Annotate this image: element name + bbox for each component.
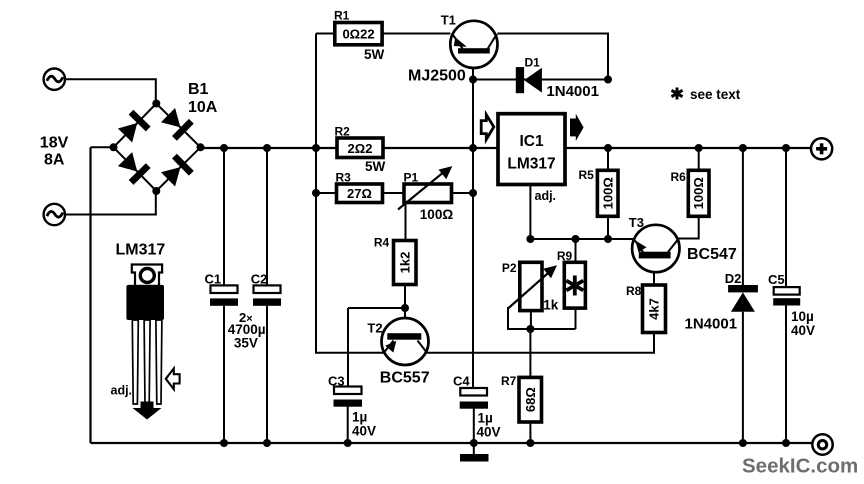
LM317 package body	[126, 285, 164, 320]
svg-text:40V: 40V	[477, 425, 501, 440]
transistor T2 BC557	[382, 318, 429, 365]
svg-text:100Ω: 100Ω	[600, 177, 615, 209]
wire R3 to P1	[383, 192, 405, 194]
terminal + output	[811, 138, 832, 159]
wire P1 wiper down to R4	[405, 204, 407, 241]
wire T1 base down through junction to main rail	[472, 53, 474, 148]
svg-text:10A: 10A	[188, 99, 218, 116]
resistor R8	[643, 285, 666, 333]
svg-text:1k2: 1k2	[397, 252, 412, 274]
wire R5 top lead	[607, 148, 609, 170]
capacitor C2	[253, 148, 281, 443]
svg-text:5W: 5W	[364, 47, 385, 62]
svg-text:BC557: BC557	[380, 370, 430, 387]
wire R6 top lead	[698, 148, 700, 170]
resistor R6	[688, 170, 709, 216]
wire C5 bottom lead	[785, 306, 787, 444]
wire top AC source to bridge top vertex	[65, 79, 156, 103]
svg-text:1µ: 1µ	[352, 410, 367, 425]
svg-text:D1: D1	[525, 56, 541, 70]
resistor R1	[335, 23, 382, 45]
terminal 0 output	[812, 434, 832, 454]
svg-text:R8: R8	[626, 284, 642, 298]
LM317 package tab hole	[140, 269, 154, 283]
ground symbol below C4	[460, 454, 489, 462]
label see text with asterisk	[672, 87, 741, 102]
svg-text:R5: R5	[579, 168, 595, 182]
wire T2 base node horizontal to C3	[348, 307, 405, 309]
svg-text:adj.: adj.	[535, 189, 557, 203]
wire R5 bottom lead	[607, 216, 609, 239]
diode D2	[728, 285, 758, 312]
wire D2 bottom lead	[742, 312, 744, 443]
svg-text:C1: C1	[205, 272, 222, 287]
wire R9 top lead	[575, 239, 577, 262]
LM317 package tab	[132, 265, 162, 287]
svg-text:BC547: BC547	[687, 246, 737, 263]
wire vertical x=473 from rail to C4	[472, 148, 474, 388]
wire P2 wiper tap L	[508, 307, 576, 329]
wire T2 base lead	[404, 308, 406, 334]
wire P2 bottom lead	[530, 311, 532, 329]
capacitor C5	[773, 287, 800, 305]
resistor R7	[519, 377, 542, 422]
AC source bottom	[44, 204, 65, 225]
svg-text:1k: 1k	[543, 298, 559, 313]
svg-text:C4: C4	[453, 374, 470, 389]
svg-text:C3: C3	[328, 374, 345, 389]
svg-text:LM317: LM317	[116, 242, 166, 259]
transistor T3 BC547	[632, 225, 679, 272]
svg-text:4k7: 4k7	[647, 298, 662, 320]
svg-text:R3: R3	[336, 171, 352, 185]
capacitor C1	[210, 148, 238, 443]
wire C3 bottom lead	[347, 407, 349, 444]
node adj rail junctions	[526, 235, 612, 243]
bridge diode arm left-bottom	[116, 151, 150, 185]
svg-text:R1: R1	[334, 9, 350, 23]
diode D1	[516, 67, 542, 93]
svg-text:2Ω2: 2Ω2	[348, 141, 373, 156]
svg-text:27Ω: 27Ω	[347, 186, 372, 201]
svg-text:SeekIC.com: SeekIC.com	[742, 455, 858, 478]
svg-text:R6: R6	[671, 170, 687, 184]
LM317 package hollow left arrow	[166, 368, 180, 389]
svg-text:R7: R7	[501, 374, 517, 388]
bridge diode arm top-right	[160, 107, 194, 141]
resistor R5	[597, 170, 618, 216]
wire IC1 adj pin	[529, 185, 531, 240]
wire R1 right lead to T1	[382, 33, 450, 35]
svg-text:1N4001: 1N4001	[685, 315, 738, 332]
capacitor C3	[334, 387, 363, 407]
wire bottom AC source to bridge bottom vertex	[65, 191, 156, 215]
svg-text:adj.: adj.	[111, 384, 133, 398]
op-amp regulator IC1 LM317 box	[498, 114, 565, 185]
IC1 output solid arrow	[570, 114, 584, 141]
wire D1 horizontal net	[473, 79, 608, 81]
svg-text:IC1: IC1	[519, 133, 544, 150]
wire P1 right lead	[452, 192, 474, 194]
svg-text:1µ: 1µ	[478, 411, 493, 426]
wire C4 bottom lead and ground stub	[473, 409, 475, 455]
wire T3 base to R8	[653, 258, 655, 285]
wire T2 collector to R8 bottom	[427, 333, 654, 353]
wire C5 top lead	[785, 148, 787, 287]
resistor R3	[337, 184, 383, 203]
svg-text:LM317: LM317	[507, 156, 555, 173]
svg-text:B1: B1	[188, 81, 209, 98]
wire left branch rail x=316 down to T2 emitter	[316, 34, 384, 353]
LM317 package down arrow	[133, 402, 162, 420]
svg-text:R9: R9	[557, 249, 573, 263]
wire R3 left lead	[316, 192, 337, 194]
node R3/P1 row junctions	[312, 189, 477, 197]
svg-text:T2: T2	[367, 321, 382, 336]
svg-text:8A: 8A	[44, 152, 65, 169]
svg-text:see text: see text	[690, 87, 741, 102]
AC source top	[44, 69, 65, 90]
wire R9 bottom lead	[575, 308, 577, 329]
node junction dots on main rail	[220, 144, 790, 152]
node junction dots on bottom rail	[220, 439, 790, 447]
wire bridge left vertex to left rail	[91, 146, 114, 148]
IC1 input hollow arrow	[481, 115, 494, 140]
svg-text:R4: R4	[374, 236, 390, 250]
wire R4 bottom lead	[404, 285, 406, 309]
svg-text:100Ω: 100Ω	[691, 177, 706, 209]
svg-text:18V: 18V	[40, 135, 69, 152]
svg-text:100Ω: 100Ω	[420, 207, 454, 222]
potentiometer P1	[398, 166, 452, 209]
resistor R4	[394, 241, 417, 285]
svg-text:T3: T3	[629, 215, 644, 230]
wire R7 bottom lead	[529, 422, 531, 443]
wire C3 top lead	[347, 308, 349, 387]
resistor R9 with asterisk	[564, 262, 585, 308]
svg-text:1N4001: 1N4001	[546, 83, 599, 100]
wire bottom 0V rail	[91, 442, 813, 444]
svg-text:35V: 35V	[234, 336, 258, 351]
svg-text:MJ2500: MJ2500	[408, 67, 466, 84]
svg-text:P2: P2	[502, 261, 517, 275]
node T1 base / D1 junction	[469, 76, 612, 84]
svg-text:68Ω: 68Ω	[523, 387, 538, 412]
svg-text:T1: T1	[441, 13, 456, 28]
svg-text:D2: D2	[725, 271, 742, 286]
wire adj rail to T3 emitter	[530, 238, 633, 240]
svg-text:40V: 40V	[352, 424, 376, 439]
wire R7 vertical from P2 node	[529, 329, 531, 377]
svg-text:0Ω22: 0Ω22	[342, 26, 374, 41]
LM317 package legs	[132, 320, 162, 404]
svg-text:40V: 40V	[791, 323, 815, 338]
wire T1 collector to vertical x=608	[497, 34, 608, 80]
transistor T1 MJ2500	[450, 21, 497, 68]
wire left rail (negative side vertical)	[89, 147, 91, 443]
wire R1 left lead	[316, 33, 335, 35]
node bridge vertex dots	[110, 100, 205, 196]
bridge rectifier B1 diamond wires	[114, 104, 201, 192]
wire main positive rail	[201, 147, 812, 149]
svg-text:R2: R2	[335, 125, 351, 139]
wire D2 top lead	[742, 148, 744, 285]
bridge diode arm left-top	[116, 110, 150, 144]
svg-text:C2: C2	[251, 272, 268, 287]
wire R6 bottom lead to T3 collector	[678, 216, 698, 238]
svg-text:10µ: 10µ	[791, 309, 814, 324]
svg-text:C5: C5	[768, 272, 785, 287]
svg-text:P1: P1	[404, 171, 419, 185]
node T2 base junction	[401, 304, 409, 312]
potentiometer P2	[508, 262, 557, 310]
bridge diode arm bottom-right	[160, 154, 194, 188]
capacitor C4	[460, 388, 488, 409]
svg-text:5W: 5W	[365, 159, 386, 174]
node P2/R9/R7 junction	[526, 325, 534, 333]
resistor R2	[337, 138, 383, 158]
